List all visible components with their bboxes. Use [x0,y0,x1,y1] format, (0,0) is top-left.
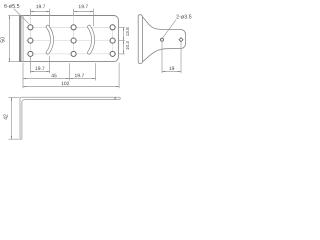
svg-text:45: 45 [51,73,57,79]
svg-text:10.3: 10.3 [125,41,130,50]
svg-text:19.7: 19.7 [75,73,85,79]
svg-text:2-ø3.5: 2-ø3.5 [176,14,192,20]
svg-text:102: 102 [61,81,70,87]
svg-text:19.7: 19.7 [78,4,88,10]
svg-text:42: 42 [4,114,10,120]
svg-text:19: 19 [169,66,175,72]
svg-text:13.8: 13.8 [125,27,130,36]
svg-text:19.7: 19.7 [35,66,45,72]
svg-text:19.7: 19.7 [36,4,46,10]
svg-text:6-ø5.5: 6-ø5.5 [4,4,20,10]
svg-text:50: 50 [1,37,7,43]
